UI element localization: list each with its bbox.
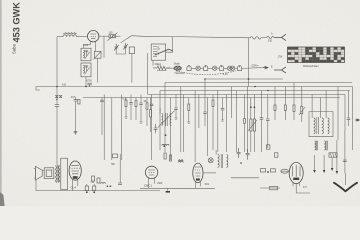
tube V4 CL4 envelope [69,161,81,180]
wave trap coil L2 [250,37,261,40]
tuned trap box F2 [94,51,101,58]
wire speaker down [35,180,37,191]
vertical x338 [337,87,339,141]
svg-text:6792: 6792 [87,80,93,83]
V4 electrodes [71,165,80,173]
resistor R11 [253,95,255,120]
heizkreis arc dashed [176,71,236,75]
capacitor C11 [151,95,153,105]
vertical x352.5 right edge [352,87,354,151]
V5 legs [195,182,200,188]
svg-text:L502: L502 [157,182,163,185]
vertical x226.6 long [226,95,228,153]
V5 cathode blob [196,178,200,180]
V6 electrodes [292,165,300,177]
svg-text:732: 732 [90,181,95,184]
svg-text:Kl4: Kl4 [205,182,210,186]
vertical x198.9 [198,95,200,129]
switch contact diagonal S1a [121,36,132,43]
fuse box bottom [270,186,278,189]
resistor R10 [250,98,252,120]
top wire y38 run [173,37,251,38]
capacitor C21 [118,183,122,185]
V5 electrodes [195,167,201,176]
heater U4h bulb [238,65,242,70]
V6 cathode marks [293,178,299,180]
resistor R12 top [274,87,276,106]
IF transformer L503 [218,155,220,168]
output transformer T1 windings [55,166,56,183]
tube V6 CY1 envelope [289,162,303,183]
padder box C4 [129,47,134,54]
heater lamp E2 [196,66,200,70]
trimmer capacitor C3 [123,43,128,50]
capacitor C14 [222,98,224,109]
resistor R15 arrow [301,87,303,107]
capacitor C16 [267,95,269,120]
vertical wire x104 [103,36,105,58]
twin dots [107,185,109,187]
vertical x120.2 bottom [119,154,121,183]
heater lamps E4 double [227,66,231,70]
capacitor C17 right [348,91,350,119]
vertical x183.5 [183,95,185,153]
speaker LS cone [35,166,42,180]
wire CY1 to wing [296,184,310,193]
resistor R13 top [284,87,286,106]
wire tube legs to filter [84,45,91,49]
T1 core [57,165,58,182]
capacitor C22 [154,124,158,133]
vertical x345 [344,95,346,131]
junction dot bus4 [254,86,256,88]
bottom wire mid [140,187,215,189]
svg-text:CL4: CL4 [70,186,76,190]
T2 primary coil [314,118,316,134]
wire heater chain out [242,67,263,70]
wire tube anode right [99,35,109,37]
wire trimmer bottoms [116,50,125,54]
svg-text:Wellenschalter: Wellenschalter [303,65,319,68]
heater dropping resistor R2 [153,66,170,69]
wire between traps [261,37,267,39]
wave band table grid lines [288,47,345,63]
T2 secondary coil2 [328,118,330,134]
small component blob2 [275,153,278,157]
wire R1 to switch junction [115,35,120,37]
resistor R9 [243,95,245,119]
vertical x111.8 long [111,98,113,161]
coil L1 core hatch [63,32,77,33]
wire [191,67,196,69]
wire [208,67,213,69]
lamp small bottom [208,158,213,163]
coil small [101,183,106,184]
vertical x104.2 long [103,95,105,161]
resistor R1 hatched [109,35,115,38]
svg-text:17W: 17W [278,56,284,59]
choke L5 [324,141,325,150]
resistor boxes above V3 [164,153,166,159]
bus wire y97.5 [83,97,340,99]
wire lamps to heater chain [167,67,174,69]
switch S1 wiper diagonal [155,49,173,55]
T3 core [166,113,167,126]
wire wing riser [345,173,347,185]
V3 electrodes [148,170,155,175]
capacitor C6 [75,98,77,100]
trimmer capacitor C2 [114,44,119,51]
svg-text:-220V=: -220V= [251,65,259,68]
capacitor C13 [204,79,206,112]
wire [200,67,203,69]
junction dot bus3 [204,78,206,80]
capacitor C1 in antenna lead [55,105,59,107]
coil L501 [162,144,169,145]
resistor R6 [146,98,148,103]
T3 leads [159,108,161,114]
heater lamp E3 [213,66,217,70]
tube U1 pin legs [91,41,96,44]
resistor R8 [212,95,214,101]
tube U1 AK2 envelope [88,31,99,42]
svg-text:0,1A: 0,1A [223,73,228,76]
resistor R7 [188,98,190,105]
capacitor C24 pair [246,149,250,160]
resistor R5 [135,98,137,101]
bus start stub left [36,87,40,91]
wire padder to bus [131,54,133,83]
junction dot mid link [240,162,242,164]
fuse oval [281,169,289,173]
bandfilter coil box F1 lower [81,63,91,77]
bus wire y94.5 [148,94,345,96]
V6 legs [293,183,299,186]
power verticals with arrows [314,155,316,170]
chassis wing ground [334,183,357,191]
T2 secondary coil [322,118,324,134]
electrolytic C19 [86,184,88,186]
vertical x236.7 [236,91,238,153]
wire [217,67,219,69]
resistor R4 [125,98,127,101]
capacitor C15 [261,91,263,118]
bus wire y90.5 [160,90,350,92]
speaker field magnet [44,168,54,179]
junction dot [248,78,250,80]
bus wire y86.5 main [36,86,353,88]
V3 legs [149,178,155,189]
vertical x121.3 long [120,95,122,161]
wire antenna lead top [57,36,63,38]
switch S1 contacts [153,47,157,57]
antenna coil L1 [63,35,77,37]
electrolytic C20 [93,184,95,186]
heater U1h bulb [187,65,191,70]
riser x248.5 [248,38,250,87]
bottom bus wire left [36,190,160,192]
capacitor C23 pair [237,148,241,158]
antenna terminal arrow [274,34,286,40]
R2 underline [157,69,166,71]
IF transformer T3 primary coil [162,114,163,126]
tube U1 electrodes [90,34,96,39]
capacitor C18 [343,160,347,162]
dial lamps E1 pair [174,66,182,70]
vertical x160 long [159,91,161,151]
heater U2h bulb [204,65,208,70]
phono jack marks [56,95,62,98]
junction dot T3 [165,134,167,136]
T2 core lines [317,117,319,134]
vertical x247.5 [247,87,249,153]
svg-text:CY: CY [303,185,307,189]
T3 tuning arrow [158,111,175,128]
resistor R16 hatched [329,153,337,157]
vertical antenna feed x57 [56,37,58,105]
vertical x170.4 long [169,98,171,161]
wire coil to tube [77,36,88,38]
small box on wire [113,154,118,158]
wave switch S1 box [151,44,166,60]
tube V3 CBC1 envelope [145,166,157,178]
junction dots mid [250,106,252,108]
bottom right cluster resistor [261,169,266,172]
arrow right edge [355,119,359,121]
vertical x231.6 [231,87,233,119]
tube V5 AL4 envelope [193,163,203,183]
capacitor C5 on bus [87,83,91,86]
vertical x180.8 long [180,87,182,153]
T3 secondary coil [170,114,171,126]
vertical x195.1 long [194,91,196,163]
resistor R14 top [293,83,295,106]
wire mid link [231,177,259,179]
vertical x165 [164,83,166,153]
svg-text:Heizkreis: Heizkreis [175,72,186,75]
svg-text:100: 100 [109,32,114,35]
scan smudge bottom-left corner [0,192,5,206]
V4 legs [73,180,78,191]
wire switch to right riser [166,44,173,52]
L503 leads [215,150,217,155]
output transformer T2 frame [309,112,333,137]
capacitor C12 [175,95,177,109]
resistor R1 trim arrow [107,33,117,41]
wire top run to switch riser [143,35,172,37]
wire speaker to transformer [42,169,44,171]
junction dot L501 [163,145,165,147]
ground blob mid [166,191,170,193]
svg-text:453 GWK: 453 GWK [12,2,22,43]
wire bottom right [260,187,280,189]
svg-text:Skala: Skala [174,63,181,66]
wave band table dark cells [288,47,345,62]
vertical x217.8 long [217,91,219,153]
wire V5 region [203,172,216,174]
vertical from padder area x147.3 [146,53,148,95]
svg-text:450: 450 [157,63,162,66]
svg-text:Saba: Saba [12,44,17,54]
component cluster mid-bottom boxes [92,176,95,181]
small component blob [267,145,270,149]
svg-text:CBC1: CBC1 [144,183,152,187]
wire switch bottom drop [152,60,154,66]
bus wire y79 [205,78,283,80]
svg-text:510: 510 [268,40,273,43]
wire switch riser [172,37,174,44]
vertical x207.7 long [207,98,209,157]
earth terminal arrow [274,67,286,73]
T1 frame tall rect [61,158,68,189]
svg-text:A,B: A,B [62,84,66,87]
bandfilter coil box F1 upper [81,48,91,61]
antenna feed lower [56,106,58,165]
resistor R17 [150,98,152,110]
capacitor C10 [140,95,142,104]
choke L4 [315,141,316,150]
capacitor C9 [130,95,132,103]
wire top band to right [132,35,144,38]
V4 cathode blob [73,176,78,179]
coil above V3 [178,159,183,162]
scan edge left [0,0,2,206]
wave trap coil L3 [267,36,274,38]
capacitor C8 [101,98,103,101]
potentiometer arrow mid [248,120,257,131]
bus wire y82.5 [165,82,352,84]
wires T2 leads [311,95,313,118]
wire [224,67,228,69]
junction dot bus [56,86,58,88]
mains arrow [263,66,268,69]
wave band table frame [288,47,345,63]
wire filter chain down [85,77,87,87]
capacitor C7 small [74,131,78,132]
junction dot bus2 [85,86,87,88]
wire [235,67,238,69]
heater U3h bulb [219,65,223,70]
junction dot bus5 [267,90,269,92]
